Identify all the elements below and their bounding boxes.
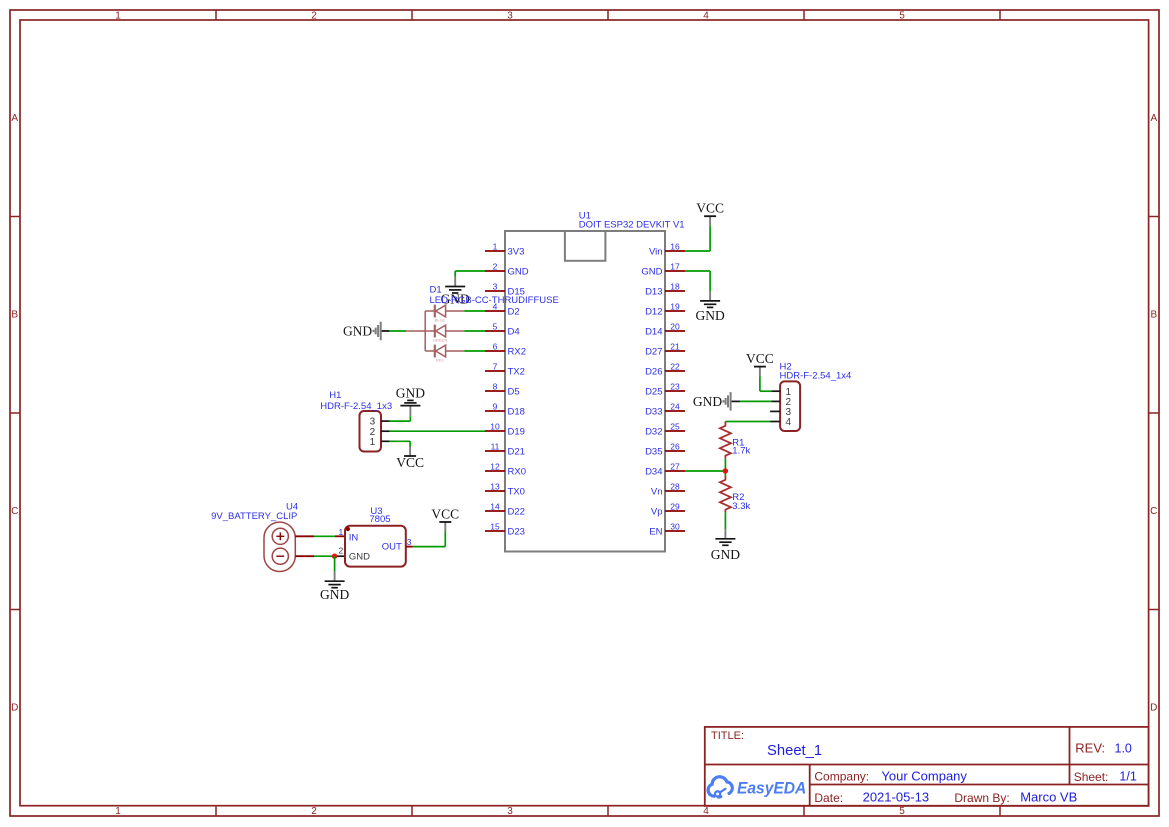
svg-text:GND: GND xyxy=(508,266,529,277)
svg-text:22: 22 xyxy=(670,361,680,371)
svg-text:Date:: Date: xyxy=(814,791,843,805)
svg-text:Vp: Vp xyxy=(651,506,663,517)
svg-text:D32: D32 xyxy=(645,426,662,437)
svg-text:GND: GND xyxy=(693,394,722,409)
svg-text:9V_BATTERY_CLIP: 9V_BATTERY_CLIP xyxy=(211,511,297,522)
svg-text:12: 12 xyxy=(490,461,500,471)
pin 10 (D19) xyxy=(485,421,525,437)
pin 21 (D27) xyxy=(645,341,685,357)
svg-text:D1: D1 xyxy=(430,285,442,296)
pin 4 (D2) xyxy=(485,301,520,317)
pin 24 (D33) xyxy=(645,401,685,417)
svg-text:EN: EN xyxy=(649,526,662,537)
svg-text:4: 4 xyxy=(786,417,792,428)
LED D1 labels xyxy=(430,285,559,306)
ground GND (below R2) xyxy=(711,512,740,562)
svg-text:GND: GND xyxy=(711,547,740,562)
svg-text:D: D xyxy=(11,703,18,714)
svg-text:3: 3 xyxy=(407,537,412,547)
svg-text:5: 5 xyxy=(493,321,498,331)
svg-text:1: 1 xyxy=(115,11,121,22)
pin 13 (TX0) xyxy=(485,481,525,497)
title block frame xyxy=(705,727,1149,806)
svg-text:29: 29 xyxy=(670,501,680,511)
EasyEDA logo xyxy=(708,777,806,798)
svg-text:16: 16 xyxy=(670,241,680,251)
svg-text:1: 1 xyxy=(115,806,121,817)
svg-text:GND: GND xyxy=(641,266,662,277)
pin 29 (Vp) xyxy=(651,501,685,517)
svg-text:LED-RGB-CC-THRUDIFFUSE: LED-RGB-CC-THRUDIFFUSE xyxy=(430,295,559,306)
svg-text:D34: D34 xyxy=(645,466,662,477)
connector H2 labels xyxy=(780,361,852,381)
wire LED cathode to GND xyxy=(381,330,406,332)
pin 15 (D23) xyxy=(485,521,525,537)
svg-text:7805: 7805 xyxy=(369,514,390,525)
pin 9 (D18) xyxy=(485,401,525,417)
svg-text:HDR-F-2.54_1x3: HDR-F-2.54_1x3 xyxy=(320,401,392,412)
svg-text:VCC: VCC xyxy=(696,201,724,216)
svg-text:BLUE: BLUE xyxy=(435,318,446,323)
power VCC (above H2 pin1) xyxy=(746,351,774,391)
wire pin16 Vin to VCC xyxy=(685,250,710,252)
pin 25 (D32) xyxy=(645,421,685,437)
battery clip U4 labels xyxy=(211,502,298,523)
svg-text:Drawn By:: Drawn By: xyxy=(954,791,1009,805)
svg-text:2021-05-13: 2021-05-13 xyxy=(863,790,930,805)
svg-text:1: 1 xyxy=(493,241,498,251)
svg-text:18: 18 xyxy=(670,281,680,291)
connector H1 labels xyxy=(320,390,392,412)
svg-text:Vin: Vin xyxy=(649,246,663,257)
pin 22 (D26) xyxy=(645,361,685,377)
pin 11 (D21) xyxy=(485,441,525,457)
svg-text:GND: GND xyxy=(320,587,349,602)
svg-text:2: 2 xyxy=(338,546,343,556)
pin 23 (D25) xyxy=(645,381,685,397)
svg-text:7: 7 xyxy=(493,361,498,371)
pin 30 (EN) xyxy=(649,521,685,537)
svg-text:6: 6 xyxy=(493,341,498,351)
svg-text:VCC: VCC xyxy=(431,506,459,521)
svg-text:D27: D27 xyxy=(645,346,662,357)
wire H1 pin1 to VCC xyxy=(390,440,410,442)
svg-text:19: 19 xyxy=(670,301,680,311)
pin 8 (D5) xyxy=(485,381,520,397)
svg-text:GND: GND xyxy=(396,385,425,400)
connector H2 body xyxy=(770,381,800,431)
ground GND (below pin17 wire) xyxy=(695,271,724,323)
svg-text:D26: D26 xyxy=(645,366,662,377)
pin 1 (3V3) xyxy=(485,241,524,257)
svg-text:D4: D4 xyxy=(508,326,520,337)
svg-text:1.0: 1.0 xyxy=(1115,741,1132,755)
svg-text:11: 11 xyxy=(491,441,500,451)
svg-text:1: 1 xyxy=(370,437,376,448)
svg-text:30: 30 xyxy=(670,521,680,531)
wire R1 to junction xyxy=(724,459,726,476)
pin 12 (RX0) xyxy=(485,461,526,477)
svg-text:D13: D13 xyxy=(645,286,662,297)
svg-text:VCC: VCC xyxy=(396,455,424,470)
svg-text:Your Company: Your Company xyxy=(881,768,967,783)
svg-text:A: A xyxy=(11,113,18,124)
svg-text:14: 14 xyxy=(490,501,500,511)
power VCC (below H1 pin1) xyxy=(396,441,424,470)
svg-text:GREEN: GREEN xyxy=(433,338,447,343)
wire battery - to 7805 GND xyxy=(295,555,345,557)
ground GND (below 7805 pin2) xyxy=(320,556,349,602)
svg-text:RED: RED xyxy=(436,358,445,363)
svg-text:23: 23 xyxy=(670,381,680,391)
svg-text:3: 3 xyxy=(507,11,513,22)
ground GND (below pin2 wire) xyxy=(441,271,470,307)
svg-text:TX2: TX2 xyxy=(508,366,525,377)
svg-text:2: 2 xyxy=(311,806,317,817)
svg-text:REV:: REV: xyxy=(1075,741,1105,756)
svg-text:B: B xyxy=(1150,310,1157,321)
svg-text:13: 13 xyxy=(490,481,500,491)
svg-text:9: 9 xyxy=(493,401,498,411)
svg-text:20: 20 xyxy=(670,321,680,331)
pin 6 (RX2) xyxy=(485,341,526,357)
svg-text:1/1: 1/1 xyxy=(1119,769,1136,783)
svg-text:GND: GND xyxy=(349,552,370,563)
svg-text:15: 15 xyxy=(490,521,500,531)
svg-text:5: 5 xyxy=(899,11,905,22)
svg-text:D25: D25 xyxy=(645,386,662,397)
svg-text:4: 4 xyxy=(703,806,709,817)
svg-text:3V3: 3V3 xyxy=(508,246,525,257)
svg-text:D33: D33 xyxy=(645,406,662,417)
pin 28 (Vn) xyxy=(651,481,685,497)
svg-text:3.3k: 3.3k xyxy=(732,501,750,512)
svg-text:2: 2 xyxy=(493,261,498,271)
resistor R2 xyxy=(720,476,751,512)
svg-text:C: C xyxy=(1150,506,1157,517)
pin 2 (GND) xyxy=(485,261,529,277)
svg-text:A: A xyxy=(1150,113,1157,124)
pin 20 (D14) xyxy=(645,321,685,337)
svg-text:1.7k: 1.7k xyxy=(732,446,750,457)
svg-text:Sheet:: Sheet: xyxy=(1074,770,1109,784)
pin 14 (D22) xyxy=(485,501,525,517)
svg-text:D5: D5 xyxy=(508,386,520,397)
svg-text:26: 26 xyxy=(670,441,680,451)
svg-text:D2: D2 xyxy=(508,306,520,317)
ground GND (left of H2 pin2) xyxy=(693,392,731,411)
svg-text:Sheet_1: Sheet_1 xyxy=(767,743,822,759)
svg-text:25: 25 xyxy=(670,421,680,431)
pin 16 (Vin) xyxy=(649,241,685,257)
power VCC (above 7805 OUT) xyxy=(431,506,459,546)
wire LED anode to chip xyxy=(464,310,485,312)
junction node battery-/GND xyxy=(332,554,337,559)
pin 27 (D34) xyxy=(645,461,685,477)
svg-text:4: 4 xyxy=(703,11,709,22)
svg-text:8: 8 xyxy=(493,381,498,391)
svg-text:2: 2 xyxy=(311,11,317,22)
wire H1 pin2 to chip pin10 D19 xyxy=(390,430,485,432)
svg-text:17: 17 xyxy=(670,261,680,271)
wire H2 pin1 to VCC xyxy=(760,390,771,392)
svg-text:D12: D12 xyxy=(645,306,662,317)
svg-text:D18: D18 xyxy=(508,406,525,417)
pin 19 (D12) xyxy=(645,301,685,317)
svg-text:GND: GND xyxy=(343,324,372,339)
svg-text:24: 24 xyxy=(670,401,680,411)
pin 26 (D35) xyxy=(645,441,685,457)
svg-text:D35: D35 xyxy=(645,446,662,457)
svg-text:B: B xyxy=(11,310,18,321)
svg-text:3: 3 xyxy=(493,281,498,291)
svg-text:D21: D21 xyxy=(508,446,525,457)
svg-text:D23: D23 xyxy=(508,526,525,537)
wire H1 pin3 to GND xyxy=(390,420,411,422)
svg-text:D22: D22 xyxy=(508,506,525,517)
wire H2 pin2 to GND xyxy=(731,400,772,402)
svg-text:H1: H1 xyxy=(329,390,341,401)
wire 7805 OUT to VCC xyxy=(406,546,446,548)
svg-text:C: C xyxy=(11,506,18,517)
svg-text:HDR-F-2.54_1x4: HDR-F-2.54_1x4 xyxy=(780,370,852,381)
resistor R1 xyxy=(720,422,751,459)
svg-text:28: 28 xyxy=(670,481,680,491)
wire H2 pin4 to R1 xyxy=(725,421,770,423)
pin 5 (D4) xyxy=(485,321,520,337)
pin 7 (TX2) xyxy=(485,361,525,377)
svg-text:IN: IN xyxy=(349,532,359,543)
pin 17 (GND) xyxy=(641,261,685,277)
wire chip pin27 D34 to junction xyxy=(685,470,725,472)
svg-text:21: 21 xyxy=(670,341,680,351)
battery clip U4 xyxy=(264,522,295,571)
wire pin17 GND xyxy=(685,270,710,272)
voltage regulator U3 7805 xyxy=(338,526,411,567)
svg-text:Marco VB: Marco VB xyxy=(1020,790,1077,805)
chip U1 body xyxy=(505,231,665,552)
svg-text:TITLE:: TITLE: xyxy=(711,730,744,742)
chip U1 refdes label xyxy=(579,211,685,231)
svg-text:3: 3 xyxy=(507,806,513,817)
wire pin2 GND xyxy=(455,270,485,272)
svg-text:1: 1 xyxy=(338,527,343,537)
title block texts xyxy=(711,730,1137,805)
junction node D34/R1/R2 xyxy=(723,468,728,473)
svg-text:27: 27 xyxy=(670,461,680,471)
svg-text:D14: D14 xyxy=(645,326,662,337)
svg-text:D: D xyxy=(1150,703,1157,714)
svg-text:TX0: TX0 xyxy=(508,486,525,497)
wire LED anode to chip xyxy=(464,330,485,332)
power VCC (top, net at pin16) xyxy=(696,201,724,251)
svg-text:5: 5 xyxy=(899,806,905,817)
pin 3 (D15) xyxy=(485,281,525,297)
svg-text:10: 10 xyxy=(490,421,500,431)
svg-text:RX2: RX2 xyxy=(508,346,526,357)
svg-text:EasyEDA: EasyEDA xyxy=(737,780,806,798)
svg-text:VCC: VCC xyxy=(746,351,774,366)
ground GND (left of LED) xyxy=(343,322,381,341)
ground GND (above H1 pin3) xyxy=(396,385,425,421)
wire LED anode to chip xyxy=(464,350,485,352)
svg-text:DOIT ESP32 DEVKIT V1: DOIT ESP32 DEVKIT V1 xyxy=(579,220,685,231)
svg-text:RX0: RX0 xyxy=(508,466,526,477)
svg-text:GND: GND xyxy=(695,308,724,323)
voltage regulator U3 labels xyxy=(369,506,390,525)
svg-text:OUT: OUT xyxy=(382,542,402,553)
pin 18 (D13) xyxy=(645,281,685,297)
svg-text:D19: D19 xyxy=(508,426,525,437)
svg-text:Vn: Vn xyxy=(651,486,663,497)
connector H1 body xyxy=(360,411,390,452)
LED D1 (RGB common cathode) xyxy=(406,305,465,363)
wire battery + to 7805 IN xyxy=(295,535,345,537)
svg-text:Company:: Company: xyxy=(814,770,869,784)
